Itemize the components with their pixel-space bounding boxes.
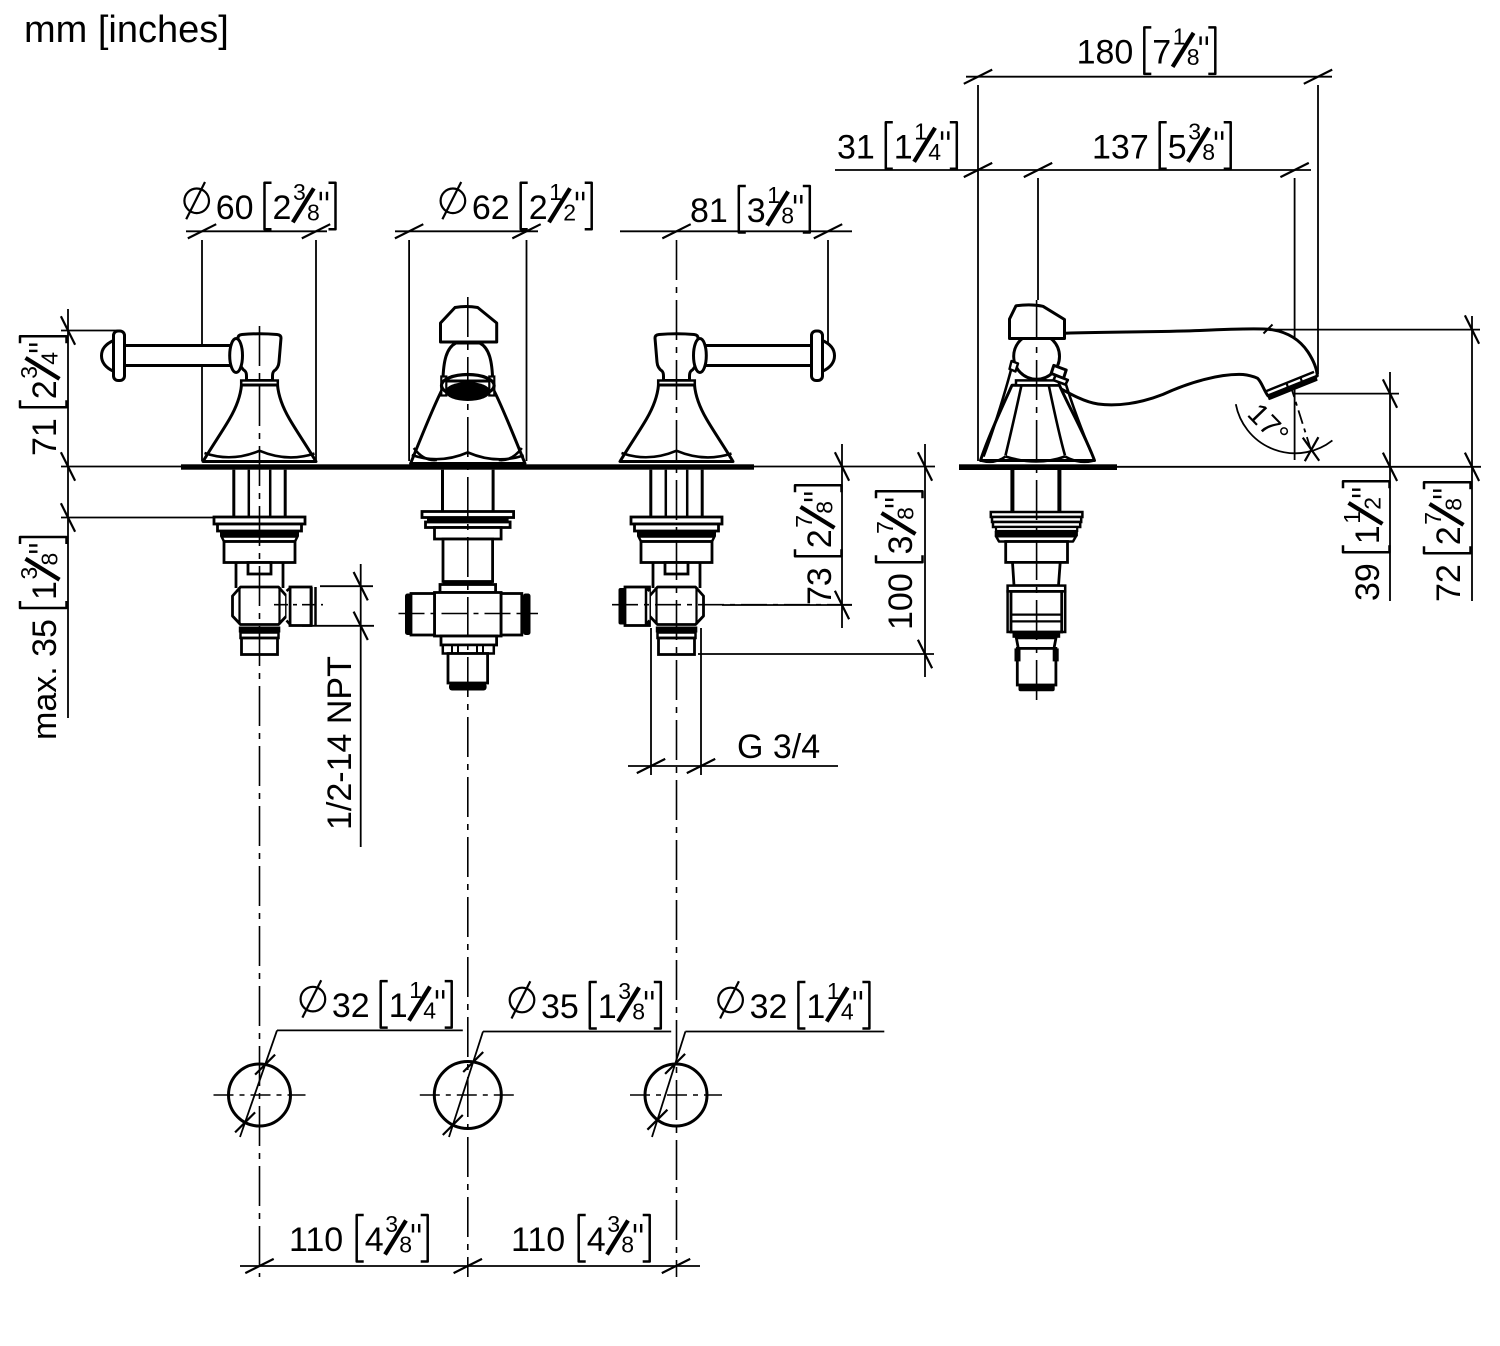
extension line G3/4 left <box>650 628 652 775</box>
dimension tick 180 left <box>964 70 992 84</box>
leader line Ø32 right diagonal <box>652 1032 685 1138</box>
spout bell fold arc right <box>499 448 522 460</box>
dimension tick Ø60 right <box>302 224 330 238</box>
handle collar <box>658 381 695 386</box>
svg-text:4: 4 <box>928 139 941 165</box>
dimension tick 81 left <box>662 224 690 238</box>
svg-text:4: 4 <box>37 352 63 365</box>
dimension tick 39 bottom <box>1383 453 1397 481</box>
side aerator band top line <box>1266 372 1314 391</box>
dimension line 81 <box>620 230 852 232</box>
extension line 73 bottom <box>722 604 852 606</box>
extension line 180 left <box>977 85 979 461</box>
leader line Ø32 right underline <box>685 1031 884 1033</box>
leader line Ø35 underline <box>483 1031 671 1033</box>
svg-text:4: 4 <box>365 1221 384 1259</box>
handle bell base <box>620 385 733 462</box>
annotation 110 left <box>289 1211 428 1262</box>
leader line Ø35 diagonal <box>449 1032 483 1138</box>
annotation max35 1-3/8 <box>16 537 67 740</box>
svg-text:137: 137 <box>1092 128 1149 166</box>
centerline tee horizontal <box>399 613 539 615</box>
annotation 180 7-1/8 <box>1077 23 1216 74</box>
tee right dark cap <box>523 594 531 636</box>
extension line deck left <box>61 466 181 468</box>
svg-text:8: 8 <box>1187 44 1200 70</box>
annotation 100 3-7/8 <box>872 491 923 630</box>
svg-text:180: 180 <box>1077 33 1134 71</box>
side outlet G3/4 (left) <box>625 587 650 626</box>
svg-text:8: 8 <box>621 1232 634 1258</box>
valve tailpiece <box>659 638 695 655</box>
mounting hole circle right Ø32 <box>645 1064 707 1126</box>
side lower dark band <box>1013 632 1061 638</box>
center tailpiece dark cap <box>449 683 487 691</box>
side riser right <box>1057 470 1061 512</box>
annotation Ø32 right <box>718 978 869 1029</box>
valve lower dark band <box>239 627 280 633</box>
svg-text:8: 8 <box>781 203 794 229</box>
countertop deck bar front view <box>181 464 754 469</box>
side lever clamp wedge 1 <box>1051 365 1066 378</box>
side bell scallop right <box>1065 457 1095 462</box>
svg-text:8: 8 <box>1441 498 1467 511</box>
side outlet G3/4 (right) <box>290 587 311 626</box>
dimension line Ø62 <box>395 230 538 232</box>
side main block shell <box>1008 591 1066 632</box>
handle lever shaft <box>124 346 231 366</box>
side outlet dark cap <box>619 588 627 625</box>
svg-text:8: 8 <box>893 507 919 520</box>
dimension line 1/2-14 NPT vertical <box>360 564 362 847</box>
dimension line 72 vertical <box>1471 316 1473 601</box>
svg-text:8: 8 <box>307 199 320 225</box>
handle bell scallop left <box>205 451 260 457</box>
mounting hole circle middle Ø35 <box>434 1062 501 1129</box>
annotation Ø32 left <box>301 977 452 1028</box>
o-ring dark band <box>637 531 716 537</box>
dimension line 31 and 137 <box>835 169 1311 171</box>
dimension tick 110 right <box>662 1259 690 1273</box>
leader tick Ø32 left upper <box>255 1055 275 1075</box>
mounting flange plate 1 <box>214 517 305 524</box>
svg-text:72: 72 <box>1430 564 1468 602</box>
side flange band 2 <box>992 517 1081 522</box>
annotation 1/2-14 NPT <box>321 656 359 830</box>
dimension line 39 vertical <box>1389 372 1391 601</box>
valve stem tab <box>665 563 688 575</box>
extension line 100 bottom <box>698 653 934 655</box>
center cartridge body <box>443 539 493 582</box>
extension line 137 spout outlet axis <box>1294 178 1296 460</box>
center o-ring dark band <box>427 518 509 523</box>
svg-text:1: 1 <box>389 987 408 1025</box>
annotation Ø35 middle <box>510 978 661 1029</box>
dimension tick Ø62 left <box>395 224 423 238</box>
centerline left outlet <box>274 604 323 606</box>
annotation 31 1-1/4 <box>837 118 957 169</box>
dimension tick 31/137 middle <box>1024 163 1052 177</box>
angle tick 17deg cross <box>1305 437 1319 461</box>
svg-text:32: 32 <box>750 988 788 1026</box>
side bell fold outer-left <box>984 370 1012 457</box>
centerline spout <box>467 297 469 1277</box>
side aerator dark strip <box>1268 377 1317 400</box>
svg-text:1: 1 <box>894 128 913 166</box>
svg-text:8: 8 <box>632 999 645 1025</box>
handle bell scallop right <box>677 451 732 458</box>
dimension tick 72 top <box>1465 315 1479 343</box>
annotation 73 2-7/8 <box>791 485 842 605</box>
side bell base <box>981 385 1095 460</box>
riser pipes <box>441 470 444 517</box>
valve ball housing <box>233 587 287 625</box>
dimension tick 110 middle <box>454 1259 482 1273</box>
center knurl band <box>443 645 494 654</box>
svg-text:110: 110 <box>511 1221 565 1259</box>
o-ring dark band <box>220 531 299 537</box>
svg-text:7: 7 <box>1152 33 1171 71</box>
svg-text:3: 3 <box>747 192 766 230</box>
dimension extension line Ø60 left <box>201 240 203 461</box>
extension line side centerline upper <box>1037 178 1039 300</box>
side spout arm <box>1040 329 1317 405</box>
handle bell base <box>203 385 316 462</box>
leader tick Ø32 right upper <box>665 1054 685 1074</box>
svg-text:32: 32 <box>332 987 370 1025</box>
extension line aerator level <box>1295 393 1399 395</box>
annotation 17 degrees <box>1241 398 1294 452</box>
valve lower collar <box>658 633 696 639</box>
spout bell scallop left <box>412 453 468 460</box>
dimension line 180 <box>966 76 1332 78</box>
dimension extension line Ø60 right <box>315 240 317 461</box>
dimension tick 71 bottom <box>61 452 75 480</box>
side main block inner <box>1011 591 1062 632</box>
svg-text:8: 8 <box>812 501 838 514</box>
valve lower dark band <box>656 627 698 633</box>
side flange band 3 <box>993 522 1080 527</box>
center mounting nut <box>435 528 502 540</box>
leader tick Ø35 upper <box>463 1052 483 1072</box>
dimension tick 39 top <box>1383 379 1397 407</box>
side riser left <box>1010 470 1014 512</box>
svg-text:G 3/4: G 3/4 <box>737 728 820 766</box>
flange lower band <box>222 537 298 542</box>
svg-text:2: 2 <box>273 189 292 227</box>
extension line deck right of front view <box>754 466 935 468</box>
dimension tick 81 right <box>814 224 842 238</box>
dimension tick G3/4 right <box>687 759 715 773</box>
valve upper body <box>224 542 295 563</box>
side cartridge taper <box>1013 562 1061 585</box>
svg-text:31: 31 <box>837 128 875 166</box>
spout bell scallop right <box>468 453 524 460</box>
leader tick Ø32 left lower <box>235 1112 255 1132</box>
dimension line G3/4 <box>628 765 838 767</box>
extension line lever top <box>61 330 120 332</box>
side bell fold outer-right <box>1062 371 1091 452</box>
svg-text:71: 71 <box>26 418 64 456</box>
svg-text:2: 2 <box>1430 526 1468 545</box>
svg-text:mm [inches]: mm [inches] <box>24 9 229 51</box>
dimension tick 137 right <box>1280 163 1308 177</box>
svg-text:max. 35: max. 35 <box>26 619 64 740</box>
extension line spout top level <box>1267 329 1480 331</box>
side lever clamp wedge 2 <box>1054 375 1068 384</box>
svg-text:2: 2 <box>529 189 548 227</box>
angle tick 17deg <box>1303 438 1319 461</box>
handle lever end dome <box>102 341 114 372</box>
spout outlet ring side tabs <box>441 377 446 396</box>
tangent mark at spout top <box>1264 325 1273 334</box>
svg-text:60: 60 <box>216 189 254 227</box>
svg-text:8: 8 <box>399 1232 412 1258</box>
svg-text:8: 8 <box>37 553 63 566</box>
side lever clamp wedge left <box>1010 361 1019 372</box>
svg-text:100: 100 <box>882 573 920 630</box>
handle bell scallop left <box>622 451 677 457</box>
side step <box>1016 638 1056 649</box>
side flange taper band <box>996 536 1076 541</box>
dimension line 110 pair <box>240 1265 700 1267</box>
center flange plate 2 <box>426 522 511 528</box>
dimension extension line Ø62 left <box>408 240 410 461</box>
dimension tick 71 top <box>61 316 75 344</box>
side flange band 1 <box>991 512 1083 517</box>
valve ball housing <box>650 587 704 625</box>
side cartridge upper <box>1006 542 1068 563</box>
handle lever end disc <box>114 331 125 381</box>
centerline circle left horizontal <box>214 1094 306 1096</box>
center step <box>441 636 497 645</box>
riser pipes <box>649 470 652 517</box>
centerline right outlet extended <box>612 604 852 606</box>
dimension tick Ø62 right <box>512 224 540 238</box>
svg-text:2: 2 <box>26 380 64 399</box>
side neck collar <box>1016 380 1059 385</box>
tee left dark cap <box>405 594 412 636</box>
annotation Ø60 2-3/8 <box>184 179 335 230</box>
dimension tick 180 right <box>1304 70 1332 84</box>
side tailpiece dark cap <box>1019 685 1055 691</box>
svg-text:81: 81 <box>690 192 728 230</box>
svg-text:3: 3 <box>882 535 920 554</box>
centerline left handle <box>259 326 261 1277</box>
side collar ring <box>1008 586 1066 592</box>
handle lever end dome <box>823 341 835 372</box>
svg-text:2: 2 <box>801 529 839 548</box>
mounting flange plate 2 <box>635 524 719 531</box>
side bell fold inner-left <box>1006 386 1022 456</box>
svg-text:2: 2 <box>563 199 576 225</box>
extension line NPT outlet top <box>320 585 373 587</box>
tee right outlet <box>501 594 522 636</box>
svg-text:1: 1 <box>598 988 617 1026</box>
side o-ring dark band <box>995 531 1078 536</box>
spout bell fold arc left <box>414 448 437 460</box>
dimension tick 73 top <box>835 452 849 480</box>
extension line deck right side view <box>1117 466 1481 468</box>
valve narrow body <box>235 563 238 589</box>
center flange plate <box>422 512 514 518</box>
angle dimension arc 17deg <box>1236 404 1333 453</box>
handle body <box>238 334 281 381</box>
dimension line 100 vertical <box>924 444 926 677</box>
svg-text:8: 8 <box>1202 139 1215 165</box>
centerline circle right horizontal <box>630 1094 722 1096</box>
spout dome body <box>443 343 493 381</box>
leader tick Ø35 lower <box>443 1115 463 1135</box>
side flange narrow band <box>996 527 1077 531</box>
dimension line Ø60 <box>186 230 327 232</box>
valve tailpiece <box>242 638 278 655</box>
svg-text:2: 2 <box>1360 497 1386 510</box>
side swivel ball <box>1014 334 1060 380</box>
spout crown cap <box>441 307 497 342</box>
handle lever end disc <box>812 331 823 381</box>
side bell fold inner-right <box>1049 386 1065 456</box>
svg-text:35: 35 <box>541 988 579 1026</box>
side bell scallop left <box>981 457 1006 462</box>
handle lever shaft <box>705 346 812 366</box>
svg-text:110: 110 <box>289 1221 343 1259</box>
spout outlet mouth dark <box>445 382 490 401</box>
center tailpiece <box>448 654 488 684</box>
dimension tick G3/4 left <box>637 759 665 773</box>
centerline circle middle horizontal <box>420 1094 516 1096</box>
handle body <box>655 334 698 381</box>
extension line G3/4 right <box>700 628 702 775</box>
dimension line 71 / max35 vertical <box>67 309 69 718</box>
svg-text:4: 4 <box>587 1221 606 1259</box>
countertop deck bar side view <box>959 464 1117 470</box>
tee center block <box>435 593 502 637</box>
extension line 180 right <box>1317 85 1319 374</box>
riser pipes <box>232 470 235 517</box>
dimension tick 73 bottom <box>835 591 849 619</box>
side tailpiece corner left <box>1015 648 1021 661</box>
centerline side view <box>1036 300 1038 702</box>
mounting flange plate 2 <box>218 524 302 531</box>
annotation Ø62 2-1/2 <box>441 179 592 230</box>
dimension tick max35 bottom <box>61 503 75 531</box>
dimension tick NPT bottom <box>354 612 368 640</box>
handle lever connector <box>230 339 243 373</box>
svg-text:4: 4 <box>841 999 854 1025</box>
dimension extension line Ø62 right <box>526 240 528 461</box>
handle bell scallop right <box>260 451 315 458</box>
side bell scallop center <box>1006 457 1066 462</box>
leader line Ø32 left underline <box>277 1029 463 1031</box>
annotation 39 1-1/2 <box>1339 481 1390 601</box>
svg-text:62: 62 <box>472 189 510 227</box>
annotation 71 2-3/4 <box>16 336 67 456</box>
svg-text:73: 73 <box>801 567 839 605</box>
dimension extension line 81 right <box>827 240 829 352</box>
svg-text:39: 39 <box>1349 563 1387 601</box>
valve narrow body <box>652 563 655 589</box>
center cartridge dark line <box>443 582 493 585</box>
extension line NPT outlet bottom <box>302 625 374 627</box>
side tailpiece <box>1017 648 1056 685</box>
annotation 81 3-1/8 <box>690 182 810 233</box>
spout outlet ring <box>442 375 495 397</box>
dimension tick 100 bottom <box>918 640 932 668</box>
svg-text:1: 1 <box>806 988 825 1026</box>
mounting hole circle left Ø32 <box>229 1064 291 1126</box>
annotation 72 2-7/8 <box>1420 482 1471 602</box>
side crown cap <box>1010 305 1065 339</box>
dimension tick 31 left <box>964 163 992 177</box>
spout outlet axis line 17deg <box>1282 357 1311 449</box>
leader tick Ø32 right lower <box>647 1110 667 1130</box>
svg-text:4: 4 <box>423 998 436 1024</box>
mounting flange plate 1 <box>631 517 722 524</box>
dimension line 73 vertical <box>841 444 843 628</box>
dimension tick NPT top <box>354 572 368 600</box>
centerline right handle <box>676 240 678 1277</box>
handle collar <box>241 381 278 386</box>
valve lower collar <box>241 633 279 639</box>
svg-text:1: 1 <box>1349 525 1387 544</box>
leader line Ø32 left diagonal <box>240 1030 277 1137</box>
spout bell base <box>411 390 525 464</box>
tee left outlet <box>411 594 435 636</box>
dimension tick 110 left <box>245 1259 273 1273</box>
handle lever connector <box>694 339 707 373</box>
center collar <box>440 585 496 593</box>
extension line flange top <box>61 517 214 519</box>
dimension tick 100 top <box>918 452 932 480</box>
side tailpiece corner right <box>1053 648 1059 661</box>
svg-text:1: 1 <box>26 581 64 600</box>
dimension tick 72 bottom <box>1465 453 1479 481</box>
annotation 110 right <box>511 1211 650 1262</box>
valve upper body <box>641 542 712 563</box>
annotation 137 5-3/8 <box>1092 118 1231 169</box>
svg-text:1/2-14 NPT: 1/2-14 NPT <box>321 656 359 830</box>
flange lower band <box>639 537 715 542</box>
svg-text:5: 5 <box>1168 128 1187 166</box>
dimension tick Ø60 left <box>188 224 216 238</box>
valve stem tab <box>248 563 271 575</box>
